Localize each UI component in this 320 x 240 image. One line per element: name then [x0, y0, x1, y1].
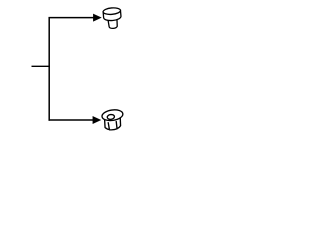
wire: vertical trunk — [48, 17, 50, 121]
wire: top branch — [49, 17, 95, 19]
nut facet line left — [108, 122, 109, 129]
nut facet line right — [116, 121, 117, 128]
rivet shank — [108, 18, 118, 29]
rivet head top face — [103, 7, 121, 15]
nut icon (bottom component) — [101, 109, 125, 131]
wire: bottom branch — [49, 119, 94, 121]
arrowhead to rivet — [93, 14, 101, 21]
wire: left stub — [32, 65, 50, 67]
nut skirt — [104, 116, 122, 131]
rivet head body — [103, 10, 121, 21]
nut hole — [107, 114, 115, 120]
rivet icon (top component) — [103, 7, 122, 29]
nut top face — [101, 109, 123, 122]
arrowhead to nut — [93, 117, 101, 124]
